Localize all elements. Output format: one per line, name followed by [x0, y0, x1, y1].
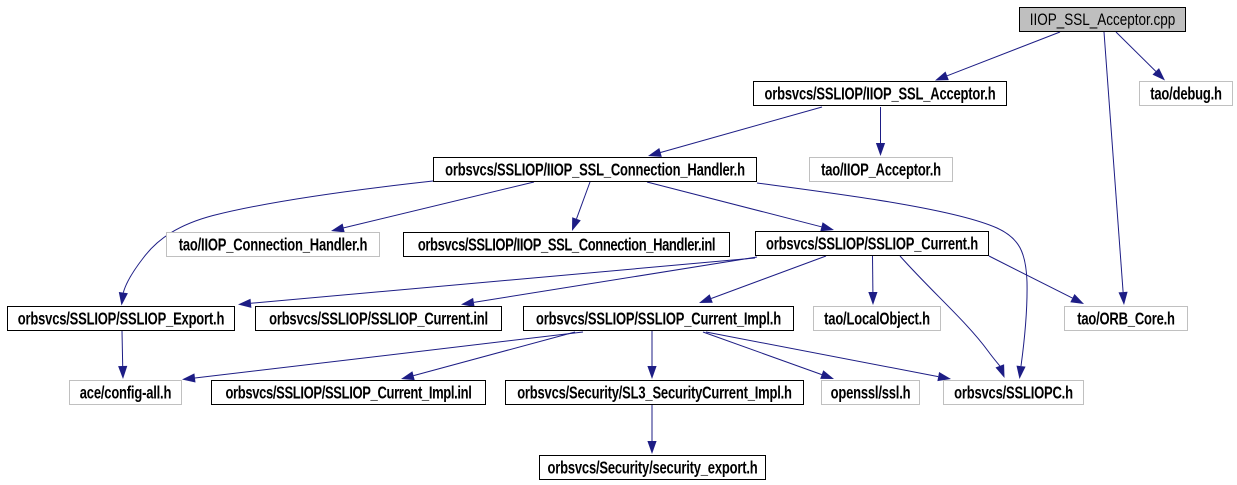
edge b4->b7 — [577, 182, 591, 219]
edge root->b13 — [1104, 32, 1123, 292]
edge b4->b9 curve — [123, 181, 433, 293]
edge root->b3 — [1116, 32, 1156, 71]
edge b4->b6 — [344, 182, 534, 228]
node orbsvcs/SSLIOP/IIOP_SSL_Connection_Handler.inl — [403, 232, 730, 257]
edge b11->b14 — [195, 332, 583, 378]
node orbsvcs/SSLIOP/IIOP_SSL_Acceptor.h — [753, 81, 1007, 106]
node tao/LocalObject.h — [813, 306, 941, 331]
edge b11->b16 — [651, 331, 653, 366]
node ace/config-all.h — [69, 380, 182, 405]
node orbsvcs/SSLIOP/SSLIOP_Current_Impl.inl — [211, 380, 486, 405]
edge b8->b10 — [474, 257, 757, 302]
node openssl/ssl.h — [821, 380, 920, 405]
node tao/ORB_Core.h — [1064, 306, 1188, 331]
edge root->b2 — [947, 32, 1060, 76]
edge b11->b18 — [706, 332, 938, 377]
node tao/IIOP_Connection_Handler.h — [166, 232, 380, 257]
edge b2->b4 — [661, 107, 823, 153]
edge b4->b18 curve — [757, 183, 1027, 366]
edge b9->b14 — [121, 331, 124, 366]
edge b4->b8 — [647, 182, 821, 227]
node orbsvcs/Security/security_export.h — [539, 455, 766, 480]
edge b11->b17 — [703, 332, 822, 375]
node orbsvcs/SSLIOP/SSLIOP_Current.inl — [255, 306, 502, 331]
edge b2->b5 — [880, 107, 882, 143]
edge b16->b19 — [651, 405, 653, 441]
node orbsvcs/SSLIOP/SSLIOP_Current.h — [755, 231, 989, 256]
node IIOP_SSL_Acceptor.cpp (root) — [1019, 7, 1186, 32]
node orbsvcs/SSLIOP/SSLIOP_Current_Impl.h — [523, 306, 794, 331]
edge b8->b12 — [872, 256, 874, 292]
node tao/debug.h — [1139, 81, 1233, 106]
edge b8->b11 — [711, 256, 826, 299]
edge b11->b15 — [414, 332, 575, 376]
edge b8->b9 — [251, 258, 755, 303]
node orbsvcs/SSLIOP/SSLIOP_Export.h — [7, 306, 235, 331]
edge b8->b18 curve — [900, 256, 1000, 366]
node orbsvcs/SSLIOPC.h — [943, 380, 1084, 405]
edge b8->b13 — [989, 256, 1072, 298]
node tao/IIOP_Acceptor.h — [809, 157, 953, 182]
node orbsvcs/Security/SL3_SecurityCurrent_Impl.h — [505, 380, 804, 405]
node orbsvcs/SSLIOP/IIOP_SSL_Connection_Handler.h — [433, 157, 757, 182]
